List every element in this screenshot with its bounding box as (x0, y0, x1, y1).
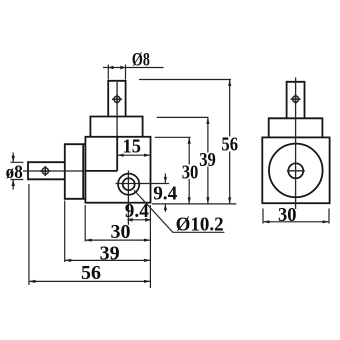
left shaft hole cross (40, 166, 50, 176)
left shaft centerline (23, 170, 85, 172)
arrow 39v top (206, 117, 209, 124)
dim 30 right view: dimension line (263, 221, 329, 223)
arrow 39 bottom right (144, 259, 151, 262)
arrow 56 bottom right (144, 280, 151, 283)
dim 39 vertical: extension line (157, 116, 209, 118)
bottom extension: body right edge (149, 205, 151, 288)
dim 56 vertical: extension line top (139, 79, 231, 81)
dim 30 vertical: dimension line (188, 137, 190, 204)
svg-text:39: 39 (199, 149, 216, 171)
dim 56 bottom: dimension line (29, 280, 150, 282)
arrow 39 bottom left (65, 259, 72, 262)
arrow Ø8 top right (120, 66, 125, 70)
dim ø8 left: extension lines (10, 162, 23, 179)
left view top flange (90, 117, 142, 137)
left view body interior step edge horizontal (85, 170, 117, 172)
top shaft hole circle (114, 96, 120, 102)
arrow 56v bottom (228, 197, 231, 204)
arrow 30 bottom right (144, 239, 151, 242)
svg-text:30: 30 (111, 221, 131, 243)
left view body interior step edge vertical (116, 137, 118, 171)
left view hole outer circle (118, 174, 139, 195)
bottom extension: shaft tip (28, 184, 30, 285)
svg-text:Ø8: Ø8 (132, 48, 150, 70)
arrow 30 right view right (323, 220, 330, 223)
svg-text:56: 56 (81, 262, 101, 284)
arrow 56v top (228, 80, 231, 87)
bottom-right extension line (152, 203, 236, 205)
arrow 9.4 bottom right (145, 218, 150, 222)
dim 30 vertical: extension line (155, 136, 191, 138)
dim 30 right view: extension lines (263, 209, 329, 224)
arrow 15 left (117, 154, 124, 157)
left view left flange right edge (82, 144, 84, 199)
hole vertical centerline / ext for 9.4 (127, 171, 129, 225)
svg-text:9.4: 9.4 (153, 183, 177, 204)
left view left flange (65, 144, 86, 199)
right view flange (269, 118, 323, 137)
svg-text:15: 15 (123, 136, 141, 158)
arrow 30 right view left (263, 220, 270, 223)
svg-text:39: 39 (100, 242, 120, 264)
right view vertical centerline (295, 78, 297, 210)
right view shaft hole cross (291, 94, 301, 104)
svg-text:9.4: 9.4 (125, 201, 149, 222)
right view shaft (287, 82, 305, 119)
arrow 39v bottom (206, 197, 209, 204)
svg-text:ø8: ø8 (6, 161, 23, 182)
left shaft hole circle (42, 168, 48, 174)
arrow 30v top (188, 137, 191, 144)
left view left shaft (28, 162, 65, 179)
dim 39 bottom: dimension line (65, 259, 151, 261)
bottom extension: flange left edge (64, 201, 66, 263)
arrow Ø8 top left (108, 66, 113, 70)
arrow 30v bottom (188, 197, 191, 204)
svg-text:30: 30 (278, 205, 296, 227)
top shaft centerline (116, 82, 118, 136)
dim 30 bottom: dimension line (85, 239, 150, 241)
top shaft hole cross (112, 94, 122, 104)
svg-text:56: 56 (221, 133, 238, 155)
arrow 9.4 right up (164, 204, 167, 210)
arrow 15 right (144, 154, 151, 157)
arrow 9.4 bottom left (127, 218, 132, 222)
dim 9.4 right: arrow stems (164, 174, 166, 212)
dim 56 vertical: dimension line (229, 80, 231, 204)
dim 9.4 bottom: dimension line (127, 219, 150, 221)
arrow ø8 left up (12, 180, 15, 187)
hole horizontal centerline / ext for 9.4 (116, 183, 170, 185)
dim Ø8 top: extension lines (108, 65, 125, 80)
right view shaft hole circle (293, 96, 299, 102)
dim ø8 left: dimension line segments (12, 153, 14, 190)
left view hole inner circle (123, 178, 135, 190)
right view large circle (269, 144, 323, 198)
left view top shaft (108, 81, 125, 117)
right view body square (262, 137, 329, 203)
left view body (85, 137, 150, 203)
right view small circle crosshair (287, 170, 305, 172)
svg-text:30: 30 (182, 161, 199, 183)
leader line Ø10.2 (134, 190, 225, 232)
dim 15: dimension line (117, 154, 150, 156)
arrow 9.4 right down (164, 177, 167, 183)
arrow ø8 left down (12, 156, 15, 163)
dim 39 vertical: dimension line (207, 117, 209, 203)
svg-text:Ø10.2: Ø10.2 (176, 214, 224, 236)
dim Ø8 top: dimension line (103, 67, 164, 69)
bottom extension: body left edge (84, 205, 86, 242)
arrow 56 bottom left (29, 280, 36, 283)
right view small circle (288, 163, 303, 178)
arrow 30 bottom left (85, 239, 92, 242)
